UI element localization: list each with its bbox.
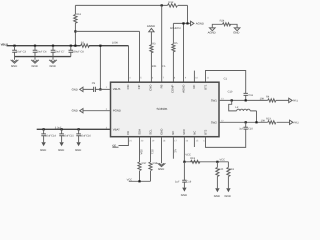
svg-text:NC: NC <box>171 131 175 135</box>
power flag GND left (pin2) <box>72 109 83 113</box>
svg-text:NC: NC <box>192 85 196 89</box>
svg-text:10K: 10K <box>152 65 157 68</box>
svg-text:PR2: PR2 <box>294 121 300 124</box>
wire PGND pin row <box>83 110 111 112</box>
ground GND triangle <box>233 28 240 35</box>
capacitor C19 <box>175 162 192 197</box>
resistor R20 <box>214 162 224 198</box>
svg-text:AGND: AGND <box>208 31 216 35</box>
ground GND 3 <box>49 57 57 68</box>
svg-text:NC: NC <box>192 131 196 135</box>
svg-text:C10: C10 <box>248 128 253 131</box>
svg-text:10K: 10K <box>260 98 265 101</box>
net tie wire AGND-GND <box>212 24 237 28</box>
IC top pin labels <box>126 84 208 93</box>
capacitor C9 series <box>92 82 96 92</box>
svg-text:CIN: CIN <box>126 85 130 90</box>
svg-text:10K: 10K <box>261 119 266 122</box>
inductor L2 branch <box>229 100 257 122</box>
ground GND 1 <box>11 57 19 68</box>
svg-text:VCC: VCC <box>220 159 226 162</box>
svg-text:SW1: SW1 <box>211 98 218 102</box>
IC U1 body <box>111 82 220 137</box>
svg-text:R12: R12 <box>169 1 174 4</box>
ground AGND triangle <box>208 28 216 35</box>
capacitor C14 <box>40 128 56 152</box>
wire PB vertical <box>162 5 166 82</box>
power flag AGND up (CNO net) <box>147 24 155 45</box>
power flag GND left (pin1) <box>72 87 83 91</box>
svg-text:C1: C1 <box>224 78 228 81</box>
svg-text:SCL: SCL <box>151 149 154 155</box>
resistor R3 on CNO <box>150 42 157 82</box>
svg-text:SW2: SW2 <box>211 120 218 124</box>
wire VCC node horizontal <box>183 159 228 163</box>
svg-text:R16: R16 <box>76 13 81 16</box>
svg-text:R19: R19 <box>229 168 234 171</box>
svg-text:COMP: COMP <box>171 84 175 93</box>
wire mid line CIP <box>75 31 139 82</box>
resistor R17 <box>138 162 147 171</box>
svg-text:R5: R5 <box>174 42 178 45</box>
svg-text:100K: 100K <box>112 42 118 45</box>
wire top line <box>75 4 187 23</box>
svg-text:R18: R18 <box>153 162 158 165</box>
svg-text:10uFC16: 10uFC16 <box>80 134 91 137</box>
svg-text:GND: GND <box>159 129 163 135</box>
wire GND pin stub <box>158 137 166 172</box>
svg-text:C19: C19 <box>186 181 191 184</box>
wire AGND pin vertical <box>183 23 185 82</box>
svg-text:GND: GND <box>75 148 81 152</box>
resistor R12 <box>168 1 178 7</box>
svg-text:SC8905: SC8905 <box>157 107 168 111</box>
capacitor C4 <box>33 45 47 57</box>
svg-text:R23: R23 <box>266 118 271 121</box>
resistor R16 <box>74 13 82 23</box>
svg-text:GND: GND <box>158 167 164 171</box>
svg-text:GND: GND <box>40 148 46 152</box>
power flag PR1 <box>289 98 299 102</box>
pin numbers bottom <box>129 139 206 142</box>
svg-text:R20: R20 <box>218 168 223 171</box>
svg-text:VCC: VCC <box>127 178 133 181</box>
svg-text:VBAT: VBAT <box>113 127 120 131</box>
svg-text:100uF C8: 100uF C8 <box>72 50 84 53</box>
wire COMP branch <box>170 23 181 82</box>
wire ground bus under caps <box>15 56 71 58</box>
svg-text:PGND: PGND <box>113 109 121 113</box>
svg-text:CE: CE <box>126 131 130 135</box>
svg-text:R2: R2 <box>81 41 85 44</box>
svg-text:AGND: AGND <box>196 21 204 25</box>
wire BT1 bootstrap <box>206 71 246 101</box>
node VBUS label <box>1 44 9 47</box>
svg-text:CIP: CIP <box>137 84 141 89</box>
wire SCL pull-up <box>151 137 154 182</box>
power flag PR2 <box>290 120 300 124</box>
svg-text:PR1: PR1 <box>293 99 299 102</box>
svg-text:GND: GND <box>58 148 64 152</box>
ground GND 2 <box>31 57 39 68</box>
resistor R18 <box>149 162 158 171</box>
wire VCC pull-up net <box>127 178 151 182</box>
svg-text:AGND: AGND <box>182 85 186 93</box>
svg-text:GND: GND <box>50 64 56 68</box>
svg-text:NC: NC <box>173 149 176 153</box>
resistor R24 <box>220 20 231 26</box>
pin numbers top <box>129 77 210 80</box>
wire VBUS pin row <box>83 88 111 90</box>
capacitor C10 (BT2-SW2) <box>206 122 254 147</box>
IC left pin labels <box>113 87 121 131</box>
wire AGND net horizontal <box>173 22 190 24</box>
svg-text:10uF C4: 10uF C4 <box>37 50 48 53</box>
resistor R4 <box>260 96 276 102</box>
svg-text:SDA: SDA <box>140 149 143 155</box>
wire CE stub <box>112 137 128 148</box>
svg-text:PB: PB <box>159 84 163 88</box>
wire CIN drop from rail <box>128 46 130 82</box>
wire SW1 row <box>219 99 289 101</box>
svg-text:GND: GND <box>233 31 239 35</box>
capacitor C11 (BT1-SW1) <box>228 90 254 97</box>
svg-text:BT2: BT2 <box>203 129 207 135</box>
svg-text:C9: C9 <box>92 82 96 85</box>
svg-text:CNO: CNO <box>148 84 152 91</box>
svg-text:10uF C7: 10uF C7 <box>55 50 66 53</box>
svg-text:GND: GND <box>11 64 17 68</box>
svg-text:GND: GND <box>181 193 187 197</box>
svg-text:C11: C11 <box>248 94 253 97</box>
IC bottom pin labels <box>126 129 208 135</box>
resistor R5 on COMP <box>172 42 178 52</box>
capacitor C8 <box>69 45 85 57</box>
capacitor C7 <box>51 45 65 57</box>
svg-text:1uF: 1uF <box>175 181 180 184</box>
svg-text:SOURC2: SOURC2 <box>170 27 181 30</box>
resistor R19 <box>190 157 200 164</box>
svg-text:BT1: BT1 <box>203 84 207 90</box>
wire NC stub 2 <box>193 137 195 147</box>
svg-text:C10: C10 <box>228 90 233 93</box>
svg-text:10uF C3: 10uF C3 <box>16 50 27 53</box>
wire NC top stub <box>193 71 195 83</box>
svg-text:GND: GND <box>72 87 78 91</box>
svg-text:10uFC14: 10uFC14 <box>45 134 56 137</box>
svg-text:VCC: VCC <box>182 129 186 135</box>
wire SDA pull-up <box>140 137 143 182</box>
capacitor C3 <box>12 45 26 57</box>
svg-text:10uFC15: 10uFC15 <box>63 134 74 137</box>
svg-text:R3: R3 <box>152 42 156 45</box>
svg-text:R19: R19 <box>190 157 195 160</box>
power flag AGND right <box>191 21 204 25</box>
svg-text:GND: GND <box>214 194 220 198</box>
resistor R23 <box>261 118 276 124</box>
resistor R21 <box>225 162 235 198</box>
pin numbers left <box>106 86 108 129</box>
wire VBUS rail <box>7 45 129 47</box>
svg-text:R17: R17 <box>142 162 147 165</box>
capacitor C15 <box>58 128 74 152</box>
wire rail to VBUS pin vertical <box>99 45 101 91</box>
svg-text:AGND: AGND <box>147 24 155 28</box>
svg-text:R4: R4 <box>266 96 270 99</box>
svg-text:VBUS: VBUS <box>113 87 121 91</box>
wire NC bottom stub <box>173 137 176 159</box>
wire VBAT rail <box>37 126 111 129</box>
wire SW2 row <box>219 121 290 123</box>
wire R16 branch vertical <box>74 5 76 46</box>
svg-text:GND: GND <box>225 194 231 198</box>
resistor R2 <box>81 41 119 47</box>
svg-text:R24: R24 <box>220 20 225 23</box>
svg-text:SDA: SDA <box>137 129 141 135</box>
IC right pin labels <box>211 98 218 124</box>
svg-text:GND: GND <box>72 109 78 113</box>
svg-text:GND: GND <box>32 64 38 68</box>
svg-text:SCL: SCL <box>148 129 152 135</box>
svg-text:1uF: 1uF <box>239 128 244 131</box>
capacitor C16 <box>75 128 91 152</box>
wire VCC pin drop <box>184 137 191 162</box>
pin numbers right <box>221 98 224 123</box>
